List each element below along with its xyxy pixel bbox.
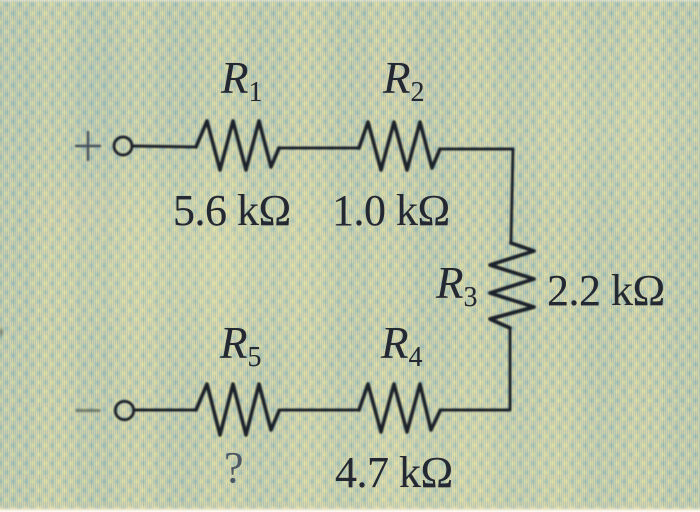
label R4	[381, 321, 423, 372]
wire terminal to R1	[132, 146, 196, 147]
terminal circle top	[114, 137, 132, 155]
terminal circle bottom	[115, 401, 133, 419]
label R3	[436, 261, 478, 312]
wire R5 to R4	[279, 409, 359, 412]
resistor R2	[359, 122, 440, 170]
wire R1 to R2	[279, 147, 359, 150]
minus terminal sign	[77, 409, 99, 412]
value unknown	[224, 446, 243, 490]
plus terminal sign	[76, 132, 100, 160]
resistor R1	[196, 121, 279, 170]
label R1	[221, 56, 263, 107]
label R2	[383, 56, 425, 107]
resistor R3	[490, 243, 534, 328]
label R5	[220, 321, 262, 372]
value 1.0 kOhm	[332, 189, 450, 233]
value 5.6 kOhm	[173, 189, 291, 233]
wire R3 to bottom-right corner	[440, 328, 510, 410]
wire bottom terminal to R5	[134, 409, 196, 412]
value 4.7 kOhm	[335, 451, 453, 495]
wire R2 to top-right corner	[440, 149, 513, 243]
resistor R4	[359, 384, 440, 432]
value 2.2 kOhm	[547, 269, 665, 313]
resistor R5	[196, 384, 279, 435]
